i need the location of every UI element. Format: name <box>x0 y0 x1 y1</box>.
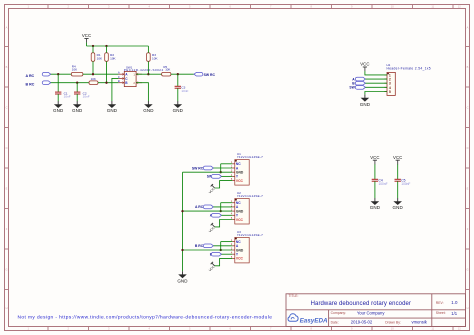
svg-text:GND: GND <box>143 108 154 113</box>
wire encoder pin 1 to R3/R6 node <box>136 73 148 75</box>
net label B (header pin 3) <box>352 81 365 85</box>
svg-text:GND: GND <box>72 108 83 113</box>
ground GND (encoder pin 2) <box>143 101 154 113</box>
wire A flag to header pin 2 <box>365 78 387 80</box>
svg-text:G: G <box>466 267 468 271</box>
svg-text:Your Company: Your Company <box>357 310 385 315</box>
net label B RC (input to U3) <box>195 244 213 248</box>
net label SW RC (input to U1) <box>192 166 214 170</box>
svg-text:VCC: VCC <box>393 155 402 160</box>
wire B RC to U3 pin A <box>213 245 232 247</box>
svg-text:B RC: B RC <box>26 82 35 86</box>
capacitor C5 100nF <box>395 179 411 186</box>
svg-text:Hardware debounced rotary enco: Hardware debounced rotary encoder <box>311 301 411 307</box>
svg-text:Sheet:: Sheet: <box>436 311 446 315</box>
svg-text:Date:: Date: <box>331 320 339 324</box>
svg-text:REV:: REV: <box>436 301 444 305</box>
wire U1 GND pin to ground bus <box>183 171 233 173</box>
wire VCC to header pin 1 <box>365 71 387 75</box>
wire A RC to R4 <box>51 73 72 75</box>
svg-text:vmensik: vmensik <box>412 320 428 325</box>
wire B RC to R5 <box>51 82 89 84</box>
wire switch node to R6 <box>148 73 161 75</box>
wire header pin 5 to ground <box>365 92 387 95</box>
svg-text:GND: GND <box>393 205 404 210</box>
svg-text:VCC: VCC <box>236 179 244 183</box>
junction B RC / C2 <box>76 82 78 84</box>
svg-text:VCC: VCC <box>370 155 379 160</box>
wire U3 NC to GND vertical <box>220 242 222 250</box>
wire R5 to encoder pin B <box>98 82 118 84</box>
svg-text:1.0: 1.0 <box>451 300 458 305</box>
svg-text:10K: 10K <box>97 56 103 60</box>
rotary encoder SW1 PEC12R-4220F-S0024 <box>118 65 164 86</box>
junction rail-R2 <box>105 45 107 47</box>
svg-text:2019-05-02: 2019-05-02 <box>351 320 373 325</box>
junction rail-R1 <box>92 45 94 47</box>
svg-text:10K: 10K <box>91 77 96 81</box>
power flag VCC (pull-up rail) <box>82 33 91 46</box>
svg-text:VCC: VCC <box>236 257 244 261</box>
svg-text:SW RC: SW RC <box>192 166 204 170</box>
net label SW (output of U1) <box>207 175 222 179</box>
svg-text:GND: GND <box>360 102 371 107</box>
junction C3 on switch wire <box>177 73 179 75</box>
wire B flag to header pin 3 <box>365 82 387 84</box>
wire U2 NC pin <box>221 202 233 204</box>
svg-text:H: H <box>467 306 469 310</box>
svg-text:VCC: VCC <box>236 218 244 222</box>
ground GND (C1) <box>53 101 64 113</box>
svg-text:100nF: 100nF <box>401 182 410 186</box>
net label SW (header pin 4) <box>349 86 365 90</box>
svg-text:GND: GND <box>53 108 64 113</box>
svg-text:GND: GND <box>107 108 118 113</box>
svg-text:C: C <box>467 105 469 109</box>
capacitor C2 10nF <box>74 83 90 101</box>
svg-text:A RC: A RC <box>26 74 35 78</box>
junction ground bus / U2 <box>181 210 183 212</box>
op-amp/schmitt inverter U1 74LVC1G14SE-7 <box>231 152 263 185</box>
svg-text:C: C <box>6 105 8 109</box>
power flag VCC (U3) <box>208 262 216 272</box>
resistor R1 10K <box>91 46 103 74</box>
svg-text:A: A <box>6 26 8 30</box>
ground GND (C4) <box>370 198 381 210</box>
svg-text:SW RC: SW RC <box>204 73 216 77</box>
svg-text:D: D <box>6 146 8 150</box>
svg-text:10nF: 10nF <box>64 95 71 99</box>
svg-text:A: A <box>118 71 120 75</box>
wire U2 Y pin to A flag <box>222 214 233 216</box>
resistor R3 10K <box>147 46 159 74</box>
op-amp/schmitt inverter U2 74LVC1G14SE-7 <box>231 191 263 224</box>
svg-text:G: G <box>5 267 7 271</box>
svg-text:VCC: VCC <box>82 33 91 38</box>
junction U3 NC vertical / GND wire <box>220 249 222 251</box>
connector H1 Header-Female 2.54_1x5 <box>384 63 431 96</box>
svg-text:10K: 10K <box>72 67 77 71</box>
svg-text:GND: GND <box>177 278 188 283</box>
wire U3 Y pin to B flag <box>222 253 233 255</box>
svg-text:74LVC1G14SE-7: 74LVC1G14SE-7 <box>237 233 263 237</box>
net label SW RC (output of filter) <box>194 72 215 77</box>
resistor R6 10K (switch line) <box>162 65 171 76</box>
svg-text:EasyEDA: EasyEDA <box>300 318 328 325</box>
wire VCC rail <box>87 45 149 47</box>
ground GND (C5) <box>393 198 404 210</box>
wire U2 NC to GND vertical <box>220 203 222 211</box>
svg-text:TITLE:: TITLE: <box>289 294 299 298</box>
wire VCC to C4 <box>374 164 376 179</box>
svg-text:E: E <box>6 186 8 190</box>
ground GND (header) <box>360 95 371 107</box>
wire U2 GND pin to ground bus <box>183 210 233 212</box>
wire SW flag to header pin 4 <box>365 86 387 88</box>
wire encoder pin C to ground <box>112 78 119 101</box>
svg-text:10K: 10K <box>152 56 158 60</box>
junction U2 NC vertical / GND wire <box>220 210 222 212</box>
wire C4 to ground <box>374 181 376 198</box>
wire U2 VCC pin <box>215 220 233 227</box>
net label A RC (input to U2) <box>195 205 213 209</box>
wire U1 VCC pin <box>215 181 233 188</box>
capacitor C3 10nF <box>175 74 189 101</box>
power flag VCC (C5) <box>393 155 402 165</box>
svg-text:B: B <box>467 65 469 69</box>
svg-text:B: B <box>6 65 8 69</box>
net label B RC (input) <box>26 81 51 86</box>
svg-text:10nF: 10nF <box>181 89 188 93</box>
svg-text:PEC12R-4220F-S0024: PEC12R-4220F-S0024 <box>124 68 164 72</box>
wire SW RC to U1 pin A <box>213 167 232 169</box>
svg-text:E: E <box>467 186 469 190</box>
resistor R5 10K (B line) <box>89 77 98 85</box>
wire A RC to U2 pin A <box>213 206 232 208</box>
title block <box>286 294 466 327</box>
svg-text:74LVC1G14SE-7: 74LVC1G14SE-7 <box>237 194 263 198</box>
junction U1 NC vertical / GND wire <box>220 171 222 173</box>
junction R1 bottom on A wire <box>92 73 94 75</box>
wire U1 Y pin to SW flag <box>222 175 233 177</box>
wire encoder pin 2 to ground <box>136 83 148 101</box>
net label A (output of U2) <box>210 213 222 217</box>
svg-text:10nF: 10nF <box>83 95 90 99</box>
svg-text:5: 5 <box>389 90 391 94</box>
svg-text:100nF: 100nF <box>379 182 388 186</box>
svg-text:D: D <box>467 146 469 150</box>
net label A RC (input) <box>26 72 51 77</box>
wire U3 GND pin to ground bus <box>183 249 233 251</box>
capacitor C1 10nF <box>55 74 71 101</box>
wire ground bus (inverters) <box>182 172 184 271</box>
junction A RC / C1 <box>57 73 59 75</box>
svg-text:A RC: A RC <box>195 205 204 209</box>
svg-text:Header-Female 2.54_1x5: Header-Female 2.54_1x5 <box>387 66 431 70</box>
wire C5 to ground <box>397 181 399 198</box>
net label B (output of U3) <box>210 252 222 256</box>
wire U3 NC pin <box>221 241 233 243</box>
junction ground bus / U3 <box>181 249 183 251</box>
power flag VCC (U2) <box>208 223 216 233</box>
EasyEDA logo <box>288 314 328 325</box>
wire R6 to SW RC flag <box>171 73 194 75</box>
svg-text:10K: 10K <box>110 56 116 60</box>
power flag VCC (U1) <box>208 184 216 194</box>
link note text <box>18 314 273 320</box>
wire U1 NC pin <box>221 163 233 165</box>
svg-text:B: B <box>118 79 120 83</box>
svg-text:SW: SW <box>349 86 355 90</box>
resistor R2 10K <box>105 46 117 83</box>
svg-text:Company:: Company: <box>331 311 347 315</box>
resistor R4 10K <box>71 64 83 76</box>
ground GND (encoder common C) <box>107 101 118 113</box>
ground GND (C2) <box>72 101 83 113</box>
capacitor C4 100nF <box>372 179 388 186</box>
junction R3 bottom / switch wire <box>147 73 149 75</box>
op-amp/schmitt inverter U3 74LVC1G14SE-7 <box>231 230 263 263</box>
wire R4 to encoder pin A <box>83 73 119 75</box>
svg-text:H: H <box>6 306 8 310</box>
junction R2 bottom on B wire <box>105 82 107 84</box>
svg-text:10K: 10K <box>165 68 170 72</box>
svg-text:B RC: B RC <box>195 244 204 248</box>
wire U3 VCC pin <box>215 258 233 265</box>
wire VCC to C5 <box>397 164 399 179</box>
svg-text:1/1: 1/1 <box>451 311 457 316</box>
net label A (header pin 2) <box>352 77 365 81</box>
svg-text:Not my design - https://www.ti: Not my design - https://www.tindie.com/p… <box>18 314 273 320</box>
svg-text:A: A <box>467 26 469 30</box>
ground GND (inverter bus) <box>177 271 188 283</box>
svg-text:Drawn By:: Drawn By: <box>385 320 401 324</box>
wire U1 NC to GND vertical <box>220 164 222 172</box>
power flag VCC (header) <box>360 62 369 72</box>
svg-text:VCC: VCC <box>360 62 369 67</box>
svg-text:GND: GND <box>370 205 381 210</box>
ground GND (C3) <box>173 101 184 113</box>
svg-text:74LVC1G14SE-7: 74LVC1G14SE-7 <box>237 155 263 159</box>
svg-text:GND: GND <box>173 108 184 113</box>
power flag VCC (C4) <box>370 155 379 165</box>
